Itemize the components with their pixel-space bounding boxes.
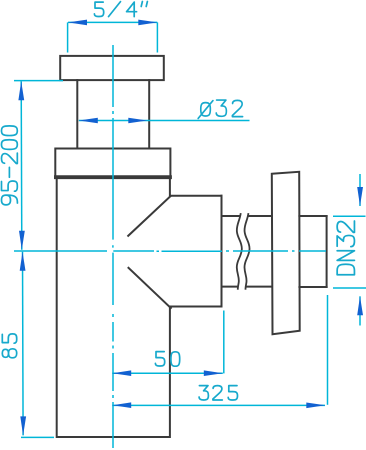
text DN32 (rotated) [337, 221, 354, 275]
dim line 85 [22, 252, 25, 436]
wall flange [272, 172, 300, 334]
arrow 325 right [306, 403, 325, 409]
arrow 50 left [112, 370, 131, 376]
arrow 5/4 right [138, 20, 157, 26]
top nut flange [60, 56, 164, 80]
wall pipe end [326, 216, 328, 287]
text 85 (rotated) [2, 334, 16, 358]
union nut [55, 149, 170, 178]
ext line 95-200 top [14, 80, 63, 82]
union nut thick bottom edge [56, 175, 170, 179]
break wavy line right [244, 214, 249, 289]
vertical centerline [112, 45, 114, 448]
ext line 50 right [223, 311, 225, 374]
wall pipe top [299, 215, 326, 217]
trap body outline [57, 179, 170, 437]
cone chamfer top [128, 196, 170, 236]
arrow 85 up [20, 252, 26, 271]
text 5/4" [94, 2, 147, 17]
arrow DN32 up [357, 296, 363, 315]
text phi32 [198, 100, 242, 118]
text 50 [155, 352, 179, 367]
arrow 85 down [20, 416, 26, 435]
ext line DN32 top [333, 215, 366, 217]
outlet stub top [170, 195, 222, 197]
ext line 325 right [327, 295, 329, 405]
dim line 5/4 [68, 21, 157, 23]
dim line DN32 lower [359, 296, 361, 325]
outlet stub end [221, 196, 223, 307]
arrow 50 right [204, 370, 223, 376]
ext line 5/4 left [67, 22, 69, 52]
cone chamfer bottom [129, 268, 171, 308]
ext line 5/4 right [156, 22, 158, 52]
break wavy line left [237, 214, 242, 289]
ext line DN32 bottom [333, 287, 366, 289]
dim line 95-200 [20, 81, 23, 250]
ext line 85 bottom [21, 436, 54, 438]
dim line DN32 upper [359, 174, 361, 206]
horizontal centerline [14, 250, 326, 252]
arrow phi32 left [79, 118, 98, 124]
arrow 95-200 down [19, 231, 25, 250]
dim line phi32 [79, 120, 250, 122]
arrow 5/4 left [68, 20, 87, 26]
inlet pipe left wall [76, 80, 78, 148]
text 325 [199, 386, 237, 400]
arrow phi32 right [128, 118, 147, 124]
outlet pipe bottom left segment [222, 286, 272, 288]
inlet pipe right wall [148, 80, 150, 148]
outlet stub bottom [170, 306, 222, 308]
dim line 50 [112, 372, 223, 374]
outlet pipe top left segment [222, 215, 272, 217]
arrow DN32 down [357, 187, 363, 206]
text 95-200 (rotated) [1, 126, 17, 205]
wall pipe bottom [299, 286, 326, 288]
arrow 325 left [112, 402, 131, 408]
arrow 95-200 up [18, 81, 24, 100]
dim line 325 [112, 404, 325, 406]
